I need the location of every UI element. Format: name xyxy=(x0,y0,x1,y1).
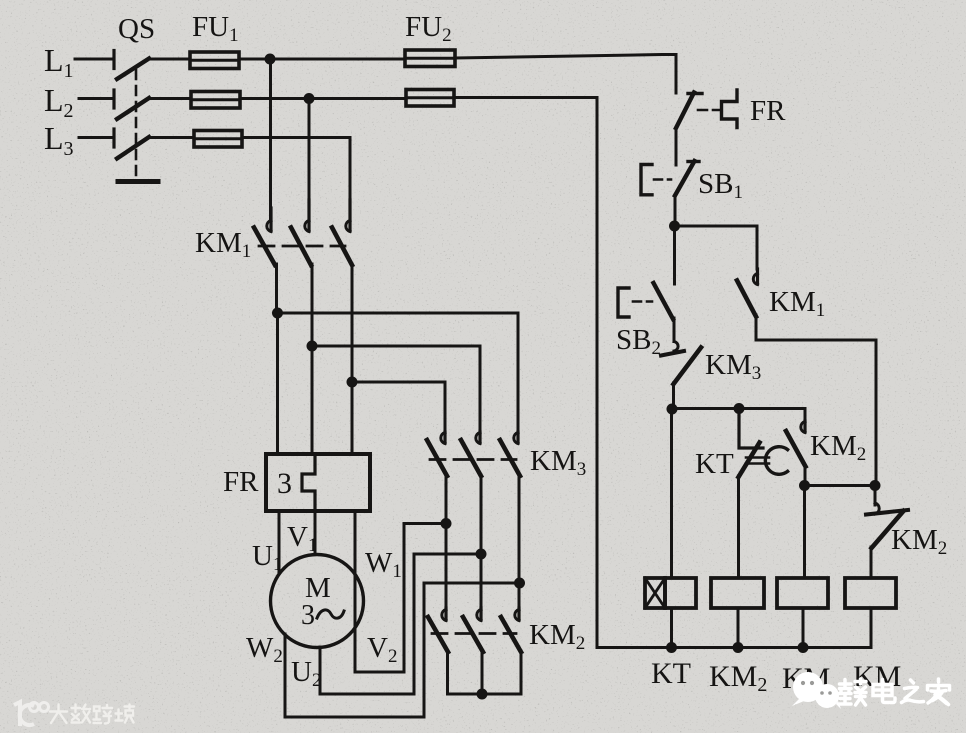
wire FR to motor V1 xyxy=(314,511,317,554)
contactor KM3 main pole 1 xyxy=(427,432,447,476)
wire L3 lead-in xyxy=(79,136,111,139)
junction node phase U xyxy=(272,308,283,319)
junction node U2/pole2 xyxy=(476,549,487,560)
wire W2 to KM3/KM2 pole 3 xyxy=(285,583,520,717)
wire L3 fuse to KM1 pole 3 xyxy=(242,138,350,220)
label FR (heater) xyxy=(223,466,259,498)
label V1 xyxy=(287,521,317,556)
wire phase V to FR xyxy=(311,346,314,454)
svg-text:3: 3 xyxy=(277,467,292,500)
label FU2 xyxy=(405,11,452,46)
contactor KM2 linkage (dashed) xyxy=(432,632,516,635)
wire phase U to FR xyxy=(276,313,279,454)
wire coil KT to bus xyxy=(670,608,673,648)
time relay KT delayed contact xyxy=(739,409,788,478)
motor M 3~ xyxy=(271,555,364,648)
wire KM3 aux to node B xyxy=(672,383,675,409)
watermark right wechat icon xyxy=(792,672,841,709)
wire phase U to KM3 pole 3 xyxy=(278,313,519,432)
switch QS linkage (dashed) xyxy=(135,70,138,177)
fuse FU1 pole 3 xyxy=(194,131,242,148)
junction node phase V xyxy=(307,341,318,352)
coil KM (3rd) xyxy=(777,578,828,608)
junction node E xyxy=(870,480,881,491)
fuse FU1 pole 1 xyxy=(190,52,239,69)
switch QS pole 2 xyxy=(114,90,149,119)
node L3 (label) xyxy=(44,120,74,160)
contactor KM2 main pole 1 xyxy=(428,608,448,652)
wire bottom bus xyxy=(597,646,871,649)
label SB2 xyxy=(616,324,661,359)
label W2 xyxy=(246,632,283,667)
svg-text:KT: KT xyxy=(651,657,691,690)
wire phase W below KM1 xyxy=(351,264,354,382)
watermark right text (gan dian zhi jia, vector) xyxy=(840,679,950,705)
thermal relay FR heater box xyxy=(266,454,370,511)
wire KM3 pole2 to KM2 pole2 xyxy=(480,475,483,608)
wire V2 to KM3/KM2 pole 1 xyxy=(355,524,446,673)
contact KM1 aux (NO) xyxy=(737,269,758,317)
wire KT contact to coil KM2 xyxy=(737,476,740,578)
label FU1 xyxy=(192,11,239,46)
wire KM2 aux to node D xyxy=(804,465,807,486)
contact KM3 aux (NC) xyxy=(661,342,701,385)
contactor KM1 main pole 1 xyxy=(254,208,275,265)
label KM1 (aux) xyxy=(769,286,825,321)
wire L2 lead-in xyxy=(79,97,111,100)
label QS xyxy=(118,13,155,45)
label KM3 (main) xyxy=(530,445,586,480)
label KT (coil) xyxy=(651,657,691,690)
wire coil KM(4th) to bus xyxy=(870,608,873,648)
contactor KM1 main pole 3 xyxy=(332,200,352,265)
label KM2 (coil) xyxy=(709,660,767,696)
svg-text:FR: FR xyxy=(223,466,259,498)
wire node D to node E xyxy=(805,484,876,487)
wire FU2 pole2 to control left rail xyxy=(454,98,597,648)
wire coil KM(3rd) to bus xyxy=(802,608,805,648)
svg-text:3: 3 xyxy=(301,600,315,631)
wire phase V to KM3 pole 2 xyxy=(312,346,480,432)
junction node star point xyxy=(477,689,488,700)
label KM1 (main) xyxy=(195,227,251,262)
contactor KM1 linkage (dashed) xyxy=(259,245,345,248)
pushbutton SB2 (NO start) xyxy=(618,283,673,319)
junction node on L2 xyxy=(304,93,315,104)
label V2 xyxy=(367,632,397,667)
fuse FU1 pole 2 xyxy=(191,92,240,109)
junction node bus-KT xyxy=(666,642,677,653)
wire L1 drop to KM1 xyxy=(269,59,272,219)
contactor KM2 main pole 3 xyxy=(501,608,521,652)
wire L3 to fuse xyxy=(148,136,194,139)
wire KM1 aux to right rail xyxy=(756,315,876,486)
wire node B to coil KT xyxy=(670,409,673,578)
junction node W2/pole3 xyxy=(514,578,525,589)
wire SB1 to node A xyxy=(674,196,677,227)
label KT (contact) xyxy=(695,448,734,480)
wire L2 fuse to FU2 xyxy=(240,97,406,100)
wire KM3 pole3 to KM2 pole3 xyxy=(518,475,521,608)
wire node A to KM1 aux branch xyxy=(675,226,758,269)
wire L2 to fuse xyxy=(148,97,191,100)
wire node A down to SB2 xyxy=(673,226,676,284)
label KM2 (aux) xyxy=(810,430,866,465)
fuse FU2 pole 1 xyxy=(405,50,455,67)
contact KM2 (NC interlock) xyxy=(866,486,908,549)
label U1 xyxy=(252,540,282,575)
wire FU2 pole1 to control right branch xyxy=(455,55,676,94)
wire FR contact to SB1 xyxy=(675,128,678,165)
wire SB2 to KM3 aux xyxy=(673,318,676,342)
coil KM2 xyxy=(711,578,764,608)
svg-text:FR: FR xyxy=(750,95,786,127)
wire L1 fuse to FU2 xyxy=(239,58,405,61)
label KM (coil 4) xyxy=(853,660,901,693)
wire L1 lead-in xyxy=(75,58,111,61)
contactor KM2 main pole 2 xyxy=(463,608,483,652)
label SB1 xyxy=(698,168,743,203)
switch QS pole 3 xyxy=(114,129,149,159)
junction node bus-KM2 xyxy=(733,642,744,653)
coil KM (4th) xyxy=(845,578,896,608)
wire node B to KM2 aux branch xyxy=(672,409,805,423)
svg-text:QS: QS xyxy=(118,13,155,45)
wire phase W to FR xyxy=(351,382,354,454)
node L1 (label) xyxy=(44,42,74,82)
svg-text:KT: KT xyxy=(695,448,734,480)
wire FR to motor U1 xyxy=(278,511,281,572)
wire coil KM2 to bus xyxy=(737,608,740,648)
fuse FU2 pole 2 xyxy=(406,90,454,107)
junction node B xyxy=(667,404,678,415)
contactor KM3 linkage (dashed) xyxy=(430,458,516,461)
pushbutton SB1 (NC stop) xyxy=(641,161,699,196)
switch QS handle bar xyxy=(118,179,158,184)
wire FR to motor W1 xyxy=(354,511,357,575)
label FR (contact) xyxy=(750,95,786,127)
wire phase V below KM1 xyxy=(311,264,314,346)
watermark left logo xyxy=(14,702,49,726)
wire star bridge of KM2 xyxy=(448,651,522,694)
wire L1 to fuse xyxy=(148,58,190,61)
watermark left text (da shu kua jing, vector) xyxy=(50,705,134,724)
wire L2 drop to KM1 xyxy=(308,99,311,220)
junction node V2/pole1 xyxy=(441,518,452,529)
wire KM3 pole1 to KM2 pole1 xyxy=(445,475,448,608)
wire KM2 NC to coil KM (right) xyxy=(870,547,873,578)
contactor KM1 main pole 2 xyxy=(291,200,311,265)
wire phase W to KM3 pole 1 xyxy=(352,382,445,432)
thermal relay FR NC contact xyxy=(676,90,737,128)
label KM2 (NC) xyxy=(891,524,947,559)
label KM3 (aux) xyxy=(705,349,761,384)
junction node bus-KM xyxy=(798,642,809,653)
junction node on L1 xyxy=(265,54,276,65)
junction node D xyxy=(799,480,810,491)
svg-text:KM: KM xyxy=(853,660,901,693)
label KM2 (main) xyxy=(529,619,585,654)
label KM (coil 3) xyxy=(782,662,830,695)
contact KM2 aux (NO) xyxy=(786,421,806,467)
junction node A xyxy=(669,221,680,232)
contactor KM3 main pole 2 xyxy=(461,432,481,476)
junction node phase W xyxy=(347,377,358,388)
contactor KM3 main pole 3 xyxy=(500,432,520,476)
label W1 xyxy=(365,547,402,582)
wire U2 to KM3/KM2 pole 2 xyxy=(320,554,481,694)
node L2 (label) xyxy=(44,82,74,122)
junction node C (KT contact tap) xyxy=(734,403,745,414)
wire node D to coil KM (3rd) xyxy=(803,486,806,579)
switch QS pole 1 (fixed jaw + blade) xyxy=(114,51,149,80)
coil KT (time relay) xyxy=(645,578,696,608)
wire phase U below KM1 xyxy=(275,264,278,313)
label U2 xyxy=(291,656,321,691)
